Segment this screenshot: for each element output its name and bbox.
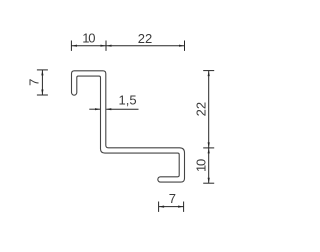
svg-text:10: 10 <box>194 159 209 172</box>
svg-text:10: 10 <box>82 31 95 46</box>
svg-text:1,5: 1,5 <box>119 92 137 107</box>
svg-text:7: 7 <box>169 191 176 206</box>
svg-text:22: 22 <box>138 31 152 46</box>
svg-text:22: 22 <box>194 102 209 116</box>
svg-text:7: 7 <box>26 79 41 86</box>
